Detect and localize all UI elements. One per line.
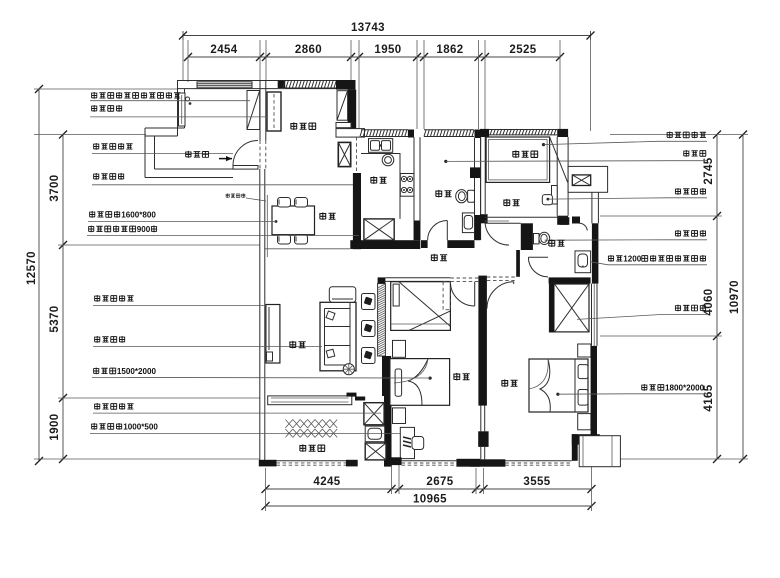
nightstand above lower bed — [393, 340, 406, 357]
washbasin in guest bath — [462, 213, 474, 233]
svg-text:900: 900 — [137, 225, 151, 234]
svg-text:2525: 2525 — [509, 44, 536, 56]
study left wall — [480, 137, 482, 214]
shoe cabinet striped band on top wall — [197, 82, 252, 88]
inner bath plumbing wall black — [521, 223, 533, 250]
study/tatami top wall corners black — [480, 129, 489, 137]
svg-text:4165: 4165 — [703, 384, 715, 411]
gas stove with 4 burners — [400, 174, 414, 197]
svg-text:3555: 3555 — [523, 476, 550, 488]
svg-text:1950: 1950 — [374, 44, 401, 56]
right note 6 — [675, 305, 681, 312]
master bedroom door swing — [487, 282, 514, 309]
round fan at sofa south — [343, 364, 354, 375]
left note 1 — [91, 92, 97, 99]
left note 3 — [93, 143, 99, 150]
right outer dimension line 10970 — [742, 135, 744, 460]
master nightstands — [578, 344, 591, 357]
inner bath toilet (wall hung) — [534, 234, 540, 244]
niche box right of study — [568, 166, 608, 192]
kitchen sliding door dashes — [356, 137, 358, 173]
black wall right of leisure — [348, 90, 357, 135]
step wall to entry porch — [145, 127, 185, 129]
right note 5 — [608, 255, 614, 262]
shaft box with X at kitchen west — [338, 142, 350, 166]
guest bath top window band — [424, 130, 474, 137]
bath door leaf and swing — [446, 221, 448, 241]
cushion pillows — [326, 311, 335, 320]
entry bottom wall — [145, 177, 233, 179]
study desk — [552, 186, 558, 205]
entry door swing arc — [233, 141, 258, 166]
kitchen bottom cabinet with X — [364, 219, 394, 240]
kitchen counter edge — [361, 154, 400, 219]
left outer dimension line 12570 — [38, 89, 40, 461]
top wall of entry closet area (double line) — [177, 80, 351, 82]
svg-text:10970: 10970 — [729, 280, 741, 314]
second bedroom bottom wall — [386, 457, 402, 465]
kitchen left black wall — [353, 173, 361, 249]
right note 2 — [683, 150, 689, 157]
tatami mat — [486, 137, 549, 182]
left note 7 — [94, 295, 100, 302]
kitchen top window band — [360, 130, 408, 137]
svg-text:2745: 2745 — [703, 157, 715, 184]
study right wall with diagonal — [556, 137, 558, 216]
inner bath small door arc top — [579, 223, 587, 230]
svg-text:1600*800: 1600*800 — [121, 211, 156, 220]
wall between bedrooms (black) — [478, 276, 487, 406]
svg-text:4245: 4245 — [313, 476, 340, 488]
console tables behind sofa — [362, 294, 376, 310]
left note 2 — [91, 105, 97, 112]
svg-text:10965: 10965 — [413, 494, 447, 506]
bottom overall dimension line 10965 — [266, 505, 592, 507]
svg-text:2454: 2454 — [210, 44, 237, 56]
study bottom wall with door opening — [485, 216, 568, 218]
second bedroom top wall — [385, 277, 450, 279]
armchair above sofa — [329, 287, 356, 303]
mirror with diagonal against that wall — [337, 91, 348, 121]
desk chair — [412, 437, 424, 450]
svg-text:1000*500: 1000*500 — [123, 423, 158, 432]
svg-text:2675: 2675 — [426, 476, 453, 488]
toilet in guest bath — [468, 190, 475, 202]
soffit line at dining/corridor boundary — [265, 248, 350, 250]
storage cabinet on living west wall — [266, 305, 280, 364]
top segment dimension line 2454/2860/1950/1862/2525 — [188, 56, 560, 58]
left note 10 — [94, 403, 100, 410]
right note 1 — [667, 132, 673, 139]
balcony sliding door black blocks — [347, 393, 357, 397]
partition wall between closet area and leisure — [259, 81, 261, 141]
right note 4 — [675, 230, 681, 237]
master right wall: window segment — [591, 284, 593, 346]
tatami top window band — [489, 130, 557, 135]
room label 厨房 (kitchen) — [370, 176, 377, 184]
low cabinet below leisure wall — [336, 123, 351, 128]
left note 8 — [94, 336, 100, 343]
black pillar middle of bath right wall — [470, 167, 481, 178]
kitchen right wall — [413, 137, 415, 240]
dressing mirror cabinet with diagonal — [247, 91, 260, 130]
right inner dimension line 2745/4060/4165 — [716, 135, 718, 460]
room label 过道 (corridor) — [431, 254, 438, 262]
svg-text:5370: 5370 — [49, 305, 61, 332]
top-right corner black pillar of leisure — [336, 80, 356, 90]
svg-text:3700: 3700 — [49, 174, 61, 201]
svg-text:1200: 1200 — [623, 255, 642, 264]
top dimension extension lines — [182, 40, 184, 80]
left inner dimension line 3700/5370/1900 — [62, 135, 64, 460]
bath bottom wall with door opening — [421, 240, 428, 248]
leader lines left annotations — [90, 100, 250, 102]
room label 外卫 (guest bath) — [435, 190, 442, 198]
leader lines right annotations — [544, 141, 708, 144]
room label 榻榻米 (tatami) — [512, 150, 519, 158]
balcony washer box with X — [364, 403, 384, 425]
left note 11 — [91, 423, 97, 430]
porch left wall — [144, 128, 146, 178]
master bed 1800x2000 — [529, 359, 588, 412]
wall edge line near dining — [266, 195, 268, 257]
kitchen bottom black wall — [350, 240, 420, 249]
master right wall black lower — [591, 346, 597, 437]
room label 内卫 (inner bath) — [548, 239, 555, 247]
second bedroom main bed 1500x2000 — [390, 359, 450, 406]
custom tall cabinet (hinged symbol) — [267, 92, 281, 131]
corridor south wall: pillar at living wall — [378, 277, 386, 283]
balcony bottom wall — [259, 460, 277, 467]
second bedroom door opening dashed — [450, 277, 478, 279]
top overall dimension line 13743 — [183, 35, 591, 37]
balcony top cabinet / laundry counter — [268, 396, 352, 405]
right extension lines — [610, 134, 748, 136]
svg-text:2860: 2860 — [295, 44, 322, 56]
inner bath door leaf and swing — [528, 256, 548, 258]
room label 主卧 (master bedroom) — [501, 379, 508, 387]
leisure area top wall black block — [278, 81, 286, 88]
AC platform outside — [579, 436, 620, 467]
dining table — [272, 206, 315, 235]
inner bath bottom wall black — [549, 277, 591, 283]
room label 休闲区 (leisure area) — [290, 122, 297, 130]
balcony laundry sink — [365, 426, 385, 442]
study door leaf and swing — [485, 220, 509, 222]
right note 3 — [675, 188, 681, 195]
svg-text:1800*2000: 1800*2000 — [665, 384, 705, 393]
master wardrobe — [550, 284, 590, 332]
master bottom wall — [470, 459, 505, 466]
svg-text:13743: 13743 — [351, 22, 385, 34]
black block bath top-right — [475, 130, 481, 139]
entry bench cabinet — [179, 93, 186, 126]
svg-text:12570: 12570 — [26, 251, 38, 285]
balcony dryer box with X — [365, 443, 386, 460]
shower floor drain dot — [444, 160, 447, 163]
left wall of closet area — [177, 81, 179, 137]
study chair — [542, 195, 552, 205]
left note 4 — [93, 173, 99, 180]
bottom extension lines — [265, 468, 267, 511]
room label 南阳台 (south balcony) — [299, 444, 306, 452]
desk in second bedroom — [400, 427, 414, 458]
room label 客厅 (living room) — [289, 341, 296, 349]
right note 7 — [641, 384, 647, 391]
second bedroom top bed — [391, 282, 451, 331]
left note 9 — [93, 368, 99, 375]
entry door label 入户门 — [185, 151, 191, 158]
door stopper symbol — [186, 97, 190, 101]
nightstand below main bed — [393, 408, 406, 424]
leisure top window band — [283, 81, 343, 89]
tiny label 背景墙纸 (wallpaper) — [226, 193, 230, 197]
left note 5 — [89, 211, 95, 218]
sofa — [320, 302, 356, 371]
black block right of study bottom wall — [572, 217, 580, 224]
hatched new wall between living and second bedroom — [378, 284, 386, 356]
svg-text:1900: 1900 — [49, 413, 61, 440]
wall below niche box — [591, 192, 593, 223]
svg-text:1862: 1862 — [436, 44, 463, 56]
room label 书房 (study) — [503, 199, 510, 207]
left note 6 — [88, 226, 94, 233]
counter band at leisure/kitchen boundary — [336, 129, 365, 138]
svg-text:4060: 4060 — [703, 288, 715, 315]
dining chairs — [278, 198, 291, 208]
entry door leaf — [233, 166, 258, 170]
second bedroom door swing — [450, 282, 474, 306]
dashed strip at bed head — [443, 282, 450, 310]
inner bath right wall black — [592, 223, 599, 283]
master bedroom door opening dashed — [487, 276, 516, 278]
black block kitchen top-right — [408, 130, 414, 138]
room label 次卧 (second bedroom) — [453, 373, 460, 381]
drying rack wave hatch — [285, 420, 337, 438]
kitchen sink unit — [369, 139, 393, 153]
kitchen pot circle — [382, 154, 394, 166]
bath right wall — [474, 138, 476, 240]
left extension lines — [34, 88, 177, 90]
bottom segment dimension line 4245/2675/3555 — [266, 488, 592, 490]
black wall below hatched wall — [382, 356, 391, 396]
svg-text:1500*2000: 1500*2000 — [117, 367, 157, 376]
balcony right black wall — [384, 393, 392, 467]
room label 餐厅 (dining) — [319, 212, 326, 220]
living area left exterior wall — [259, 169, 261, 466]
inner bath vanity basin — [575, 251, 591, 273]
master bottom-right notch walls — [572, 434, 600, 444]
